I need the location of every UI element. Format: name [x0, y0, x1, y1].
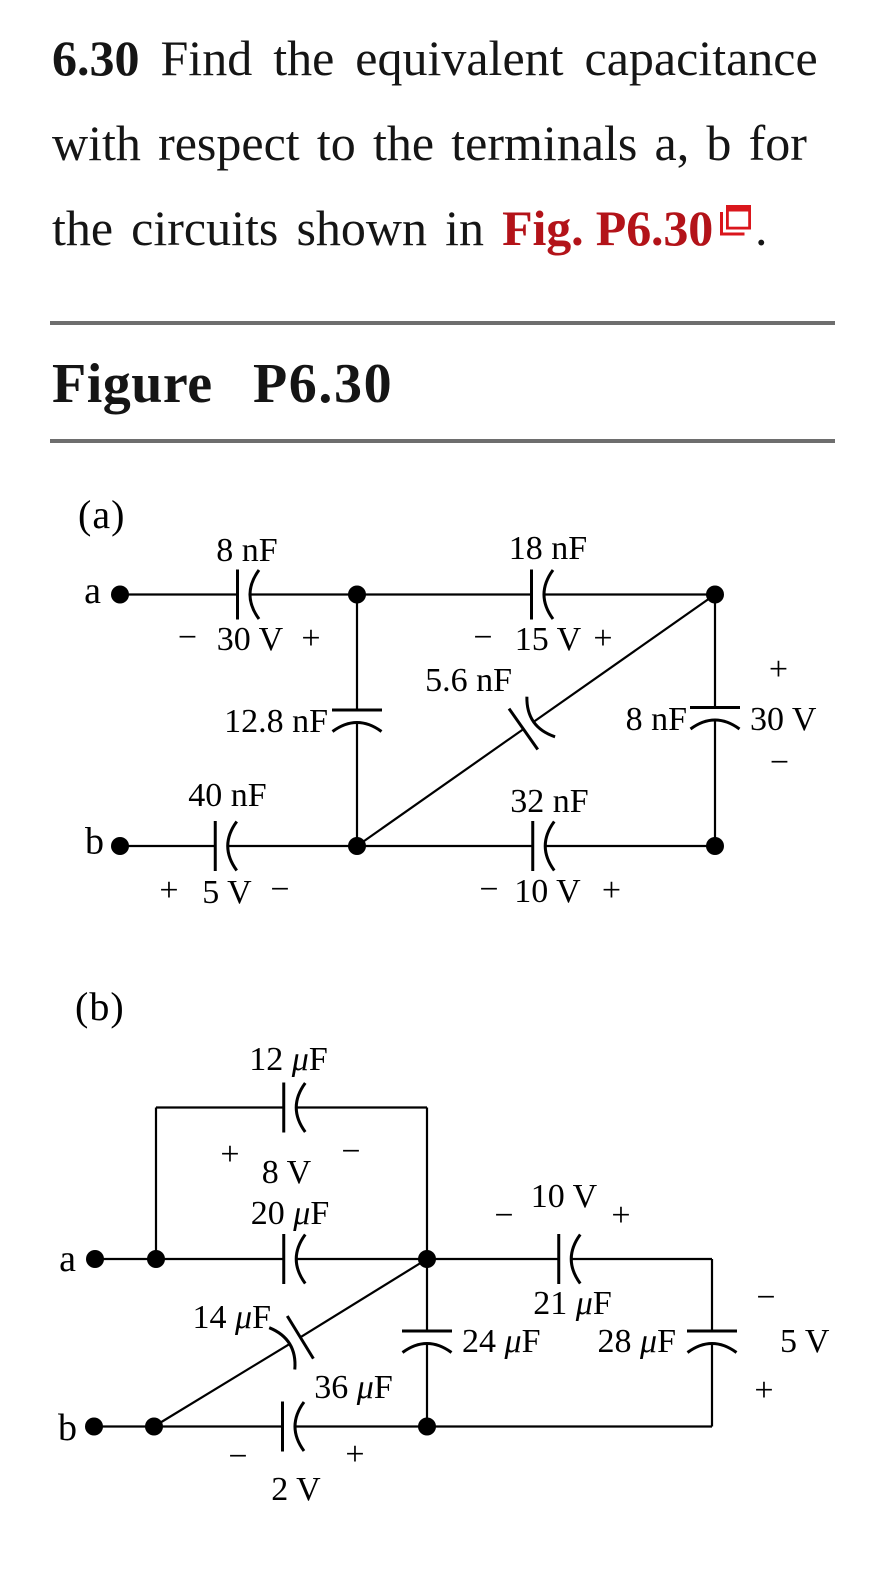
- svg-text:28 μF: 28 μF: [598, 1323, 677, 1360]
- svg-text:15 V: 15 V: [515, 621, 582, 658]
- wire C24 to bottom node: [426, 1344, 428, 1427]
- capacitor 12.8 nF: [332, 710, 382, 732]
- node4 dot: [706, 837, 724, 855]
- capacitor 18 nF: [532, 570, 554, 620]
- svg-text:a: a: [84, 570, 101, 612]
- paragraph line 3: [52, 203, 713, 253]
- wire C1 to node1: [250, 593, 357, 595]
- capacitor 32 nF: [533, 821, 555, 871]
- wire a to C1: [120, 593, 238, 595]
- rule 1: [50, 321, 835, 325]
- wire C3 to node3: [356, 723, 358, 847]
- wire C28 to bottom right corner: [711, 1344, 713, 1427]
- svg-text:5 V: 5 V: [202, 874, 252, 911]
- wire C36 to bottom node: [295, 1425, 427, 1427]
- figure heading: [52, 356, 213, 412]
- capacitor 40 nF: [215, 821, 237, 871]
- wire C20 to central node: [296, 1258, 427, 1260]
- wire central node down to C24: [426, 1259, 428, 1331]
- terminal b dot: [111, 837, 129, 855]
- wire C6 to node3: [228, 845, 357, 847]
- wire up left branch: [155, 1108, 157, 1260]
- capacitor 8 nF top-left: [238, 570, 260, 620]
- svg-text:2 V: 2 V: [271, 1471, 321, 1508]
- svg-text:14 μF: 14 μF: [193, 1299, 272, 1336]
- svg-text:−: −: [473, 619, 492, 656]
- svg-text:10 V: 10 V: [514, 873, 581, 910]
- rule 2: [50, 439, 835, 443]
- junction dot b2: [145, 1418, 163, 1436]
- svg-text:+: +: [611, 1197, 630, 1234]
- wire down to central node: [426, 1108, 428, 1260]
- svg-text:−: −: [756, 1279, 775, 1316]
- wire node3 to C7: [357, 845, 533, 847]
- paragraph line 1: [52, 33, 818, 83]
- svg-text:(a): (a): [78, 492, 125, 537]
- svg-text:21 μF: 21 μF: [533, 1285, 612, 1322]
- svg-text:−: −: [178, 619, 197, 656]
- svg-text:5 V: 5 V: [780, 1323, 830, 1360]
- svg-text:−: −: [270, 871, 289, 908]
- svg-text:+: +: [769, 651, 788, 688]
- svg-text:18 nF: 18 nF: [509, 530, 587, 567]
- svg-text:20 μF: 20 μF: [251, 1195, 330, 1232]
- svg-text:8 nF: 8 nF: [216, 532, 277, 569]
- svg-text:+: +: [593, 620, 612, 657]
- period after icon: [755, 203, 768, 253]
- wire b to C36: [94, 1425, 283, 1427]
- wire central node to C10: [427, 1258, 559, 1260]
- svg-text:+: +: [345, 1436, 364, 1473]
- svg-text:8 nF: 8 nF: [626, 701, 687, 738]
- svg-text:−: −: [494, 1197, 513, 1234]
- wire diagonal lower segment: [357, 729, 523, 846]
- svg-text:+: +: [159, 872, 178, 909]
- svg-text:+: +: [602, 872, 621, 909]
- capacitor 24 uF: [402, 1331, 452, 1353]
- capacitor 5.6 nF diagonal: [509, 696, 555, 749]
- wire top rail right: [296, 1106, 427, 1108]
- svg-text:12.8 nF: 12.8 nF: [224, 703, 328, 740]
- wire node1 to C2: [357, 593, 532, 595]
- link icon: [718, 203, 754, 239]
- wire C5 to node4: [714, 720, 716, 846]
- svg-text:5.6 nF: 5.6 nF: [425, 662, 512, 699]
- wire C10 to right corner: [571, 1258, 712, 1260]
- wire C7 to node4: [545, 845, 715, 847]
- wire b to C6: [120, 845, 215, 847]
- svg-text:30 V: 30 V: [750, 701, 817, 738]
- svg-text:10 V: 10 V: [531, 1178, 598, 1215]
- svg-text:8 V: 8 V: [262, 1154, 312, 1191]
- svg-text:−: −: [228, 1438, 247, 1475]
- capacitor 36 uF: [283, 1402, 305, 1452]
- node2 dot: [706, 586, 724, 604]
- svg-text:32 nF: 32 nF: [510, 783, 588, 820]
- svg-text:−: −: [341, 1133, 360, 1170]
- paragraph line 2: [52, 118, 807, 168]
- svg-text:30 V: 30 V: [217, 621, 284, 658]
- node3 dot: [348, 837, 366, 855]
- wire diagonal upper segment: [534, 595, 715, 722]
- capacitor 8 nF right: [690, 708, 740, 730]
- terminal a dot: [86, 1250, 104, 1268]
- svg-text:−: −: [770, 744, 789, 781]
- capacitor 21 uF: [559, 1234, 581, 1284]
- svg-text:+: +: [754, 1372, 773, 1409]
- svg-text:12 μF: 12 μF: [249, 1041, 328, 1078]
- terminal a dot: [111, 586, 129, 604]
- svg-text:a: a: [59, 1238, 76, 1280]
- wire top rail left: [156, 1106, 284, 1108]
- node1 dot: [348, 586, 366, 604]
- wire right branch down to C28: [711, 1259, 713, 1331]
- capacitor 20 uF: [284, 1234, 306, 1284]
- svg-text:+: +: [301, 620, 320, 657]
- bottom node dot: [418, 1418, 436, 1436]
- svg-text:24 μF: 24 μF: [462, 1323, 541, 1360]
- central node dot: [418, 1250, 436, 1268]
- svg-text:b: b: [58, 1407, 77, 1449]
- svg-text:36 μF: 36 μF: [314, 1369, 393, 1406]
- terminal b dot: [85, 1418, 103, 1436]
- capacitor 12 uF: [284, 1083, 306, 1133]
- wire diagonal upper segment b: [300, 1259, 427, 1337]
- wire a to C20: [95, 1258, 284, 1260]
- svg-text:40 nF: 40 nF: [188, 777, 266, 814]
- svg-text:(b): (b): [75, 984, 125, 1029]
- svg-text:b: b: [85, 821, 104, 863]
- svg-text:−: −: [479, 871, 498, 908]
- wire C2 to node2: [544, 593, 715, 595]
- wire node2 down to C5: [714, 595, 716, 708]
- wire diagonal lower segment b: [154, 1344, 290, 1427]
- wire node1 down to C3: [356, 595, 358, 711]
- capacitor 14 uF diagonal: [269, 1316, 313, 1370]
- svg-text:+: +: [220, 1136, 239, 1173]
- wire bottom node to bottom right corner: [427, 1425, 712, 1427]
- junction dot a2: [147, 1250, 165, 1268]
- capacitor 28 uF: [687, 1331, 737, 1353]
